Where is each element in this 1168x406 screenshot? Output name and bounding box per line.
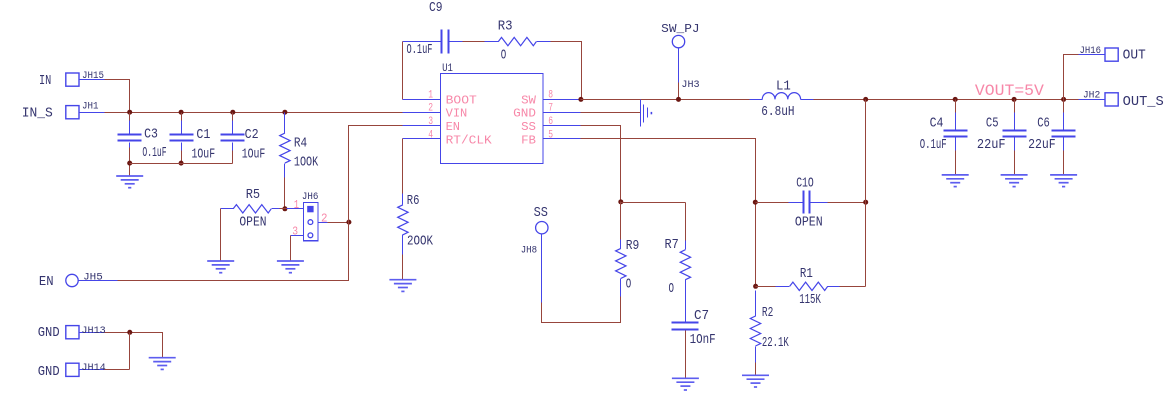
svg-text:C6: C6 xyxy=(1037,117,1050,132)
pin 2 stub xyxy=(403,112,441,114)
wire xyxy=(105,112,403,114)
wire xyxy=(581,139,756,287)
svg-text:6.8uH: 6.8uH xyxy=(761,105,794,120)
svg-text:GND: GND xyxy=(38,365,60,380)
wire xyxy=(840,286,866,288)
wire xyxy=(280,208,287,210)
svg-text:SS: SS xyxy=(521,120,536,134)
svg-text:L1: L1 xyxy=(776,79,791,94)
wire xyxy=(290,236,292,261)
svg-text:IN_S: IN_S xyxy=(22,106,53,121)
ground xyxy=(116,175,143,177)
node xyxy=(753,284,758,289)
svg-text:2: 2 xyxy=(321,211,328,225)
svg-text:1: 1 xyxy=(428,90,433,102)
wire xyxy=(328,222,349,224)
wire xyxy=(551,42,582,100)
node xyxy=(618,199,623,204)
svg-text:FB: FB xyxy=(521,133,536,147)
pin 1 stub xyxy=(403,99,441,101)
wire xyxy=(129,148,131,177)
resistor R4 xyxy=(284,113,286,134)
svg-text:JH2: JH2 xyxy=(1083,90,1100,101)
svg-text:JH15: JH15 xyxy=(82,71,104,82)
svg-text:5: 5 xyxy=(548,129,553,141)
wire xyxy=(284,178,286,209)
wire xyxy=(118,126,403,281)
wire xyxy=(828,202,866,204)
ground xyxy=(389,279,416,281)
svg-text:22uF: 22uF xyxy=(1028,138,1056,153)
svg-text:GND: GND xyxy=(513,107,536,121)
svg-text:3: 3 xyxy=(428,116,433,128)
capacitor C9 xyxy=(403,41,442,43)
ground xyxy=(1001,174,1028,176)
svg-text:JH6: JH6 xyxy=(302,192,319,203)
wire xyxy=(955,151,957,175)
node xyxy=(179,161,184,166)
svg-text:RT/CLK: RT/CLK xyxy=(446,133,493,147)
ground xyxy=(207,260,234,262)
resistor R6 xyxy=(402,194,404,205)
ground xyxy=(942,174,969,176)
node xyxy=(578,97,583,102)
resistor R5 xyxy=(221,208,234,210)
svg-text:22.1K: 22.1K xyxy=(762,336,789,351)
svg-text:C1: C1 xyxy=(196,128,210,143)
wire xyxy=(542,297,621,323)
svg-text:JH8: JH8 xyxy=(521,246,537,257)
wire xyxy=(105,333,163,358)
svg-text:JH3: JH3 xyxy=(681,80,699,91)
capacitor C2 xyxy=(232,113,234,121)
capacitor C7 xyxy=(672,322,699,324)
svg-text:SW_PJ: SW_PJ xyxy=(661,23,699,36)
node xyxy=(753,200,758,205)
svg-text:OPEN: OPEN xyxy=(795,215,823,230)
svg-text:EN: EN xyxy=(446,120,460,134)
svg-text:C1O: C1O xyxy=(796,177,814,192)
wire xyxy=(232,151,234,164)
wire xyxy=(220,209,222,261)
svg-text:C2: C2 xyxy=(245,128,259,143)
wire xyxy=(581,112,641,114)
svg-text:GND: GND xyxy=(38,326,60,341)
svg-text:22uF: 22uF xyxy=(977,138,1006,153)
svg-text:C9: C9 xyxy=(429,1,443,16)
wire xyxy=(1063,151,1065,175)
node xyxy=(282,206,287,211)
wire xyxy=(463,41,485,43)
capacitor C6 xyxy=(1063,100,1065,113)
connector JH3 (SW_PJ) xyxy=(672,35,684,47)
wire xyxy=(1064,55,1079,100)
wire xyxy=(685,331,687,379)
svg-text:SW: SW xyxy=(521,94,537,108)
svg-text:1OnF: 1OnF xyxy=(690,333,716,348)
svg-text:115K: 115K xyxy=(799,293,821,308)
wire xyxy=(105,80,130,113)
svg-text:R9: R9 xyxy=(626,239,640,254)
resistor R2 xyxy=(755,291,757,317)
ground xyxy=(672,377,699,379)
wire xyxy=(621,202,686,204)
resistor R1 xyxy=(776,286,790,288)
op-amp U1 (regulator box) xyxy=(441,74,543,164)
connector JH1 (IN_S) xyxy=(66,106,79,119)
wire xyxy=(181,151,183,164)
wire xyxy=(755,363,757,376)
connector JH16 (OUT) xyxy=(1105,48,1118,61)
wire xyxy=(581,99,750,101)
svg-text:R2: R2 xyxy=(762,306,773,321)
wire xyxy=(865,100,867,287)
node xyxy=(127,330,132,335)
power ground xyxy=(640,100,642,127)
svg-text:O: O xyxy=(501,48,507,63)
svg-text:1OOK: 1OOK xyxy=(294,156,319,171)
svg-text:JH13: JH13 xyxy=(81,326,105,337)
svg-text:BOOT: BOOT xyxy=(446,94,477,108)
node (output rail) xyxy=(863,97,868,102)
svg-text:1: 1 xyxy=(294,198,299,212)
resistor R3 xyxy=(485,41,499,43)
svg-text:R1: R1 xyxy=(800,267,813,282)
svg-text:C3: C3 xyxy=(144,127,158,142)
svg-text:JH16: JH16 xyxy=(1080,46,1102,57)
svg-text:OUT_S: OUT_S xyxy=(1123,95,1164,110)
svg-text:JH14: JH14 xyxy=(81,363,105,374)
svg-text:SS: SS xyxy=(534,206,548,221)
svg-text:U1: U1 xyxy=(442,63,453,75)
capacitor C1 xyxy=(181,113,183,121)
capacitor C3 xyxy=(129,113,131,121)
svg-text:O: O xyxy=(626,278,632,293)
svg-text:1OuF: 1OuF xyxy=(192,147,216,162)
capacitor C10 xyxy=(789,202,804,204)
connector JH13 (GND) xyxy=(66,326,79,339)
ground xyxy=(1050,174,1077,176)
node xyxy=(676,97,681,102)
svg-text:VIN: VIN xyxy=(446,107,468,121)
svg-text:O.1uF: O.1uF xyxy=(920,138,947,153)
svg-text:OPEN: OPEN xyxy=(239,216,266,231)
svg-text:O.1uF: O.1uF xyxy=(407,43,433,58)
ground xyxy=(149,357,176,359)
capacitor C5 xyxy=(1014,100,1016,113)
wire xyxy=(678,83,680,100)
svg-text:C7: C7 xyxy=(694,309,709,324)
svg-text:R5: R5 xyxy=(246,188,260,203)
wire xyxy=(814,99,1079,101)
wire xyxy=(402,42,404,100)
ground xyxy=(277,260,304,262)
resistor R7 xyxy=(685,241,687,250)
svg-text:6: 6 xyxy=(548,116,553,128)
pin 3 stub xyxy=(403,125,441,127)
svg-text:C4: C4 xyxy=(930,117,944,132)
svg-text:O: O xyxy=(669,282,675,297)
wire xyxy=(756,202,789,204)
connector JH14 (GND) xyxy=(66,363,79,376)
ground xyxy=(742,374,769,376)
pin 4 stub xyxy=(403,138,441,140)
svg-text:C5: C5 xyxy=(986,117,999,132)
svg-text:O.1uF: O.1uF xyxy=(142,146,166,161)
wire xyxy=(685,203,687,241)
wire xyxy=(402,255,404,280)
wire xyxy=(105,369,130,371)
svg-text:4: 4 xyxy=(428,129,433,141)
pin 5 stub xyxy=(544,138,581,140)
header JH6 xyxy=(304,203,318,241)
resistor R9 xyxy=(620,240,622,249)
pin 7 stub xyxy=(544,112,581,114)
svg-text:IN: IN xyxy=(39,74,51,89)
svg-text:JH5: JH5 xyxy=(83,273,103,284)
capacitor C4 xyxy=(955,100,957,113)
node (rail junctions) xyxy=(127,110,132,115)
pin 6 stub xyxy=(544,125,581,127)
node xyxy=(127,161,132,166)
svg-text:VOUT=5V: VOUT=5V xyxy=(975,82,1044,100)
svg-text:7: 7 xyxy=(548,103,553,115)
node xyxy=(346,220,351,225)
svg-text:2: 2 xyxy=(428,103,433,115)
connector JH2 (OUT_S) xyxy=(1105,93,1118,106)
inductor L1 xyxy=(750,99,763,101)
connector JH8 (SS) xyxy=(536,222,548,234)
node xyxy=(863,200,868,205)
svg-text:JH1: JH1 xyxy=(82,102,99,113)
svg-text:R7: R7 xyxy=(665,238,679,253)
svg-text:2OOK: 2OOK xyxy=(407,234,434,249)
connector JH15 (IN) xyxy=(66,73,79,86)
wire xyxy=(620,202,622,240)
svg-text:8: 8 xyxy=(548,90,553,102)
svg-text:R3: R3 xyxy=(498,20,513,35)
connector JH5 (EN) xyxy=(66,274,78,286)
wire xyxy=(402,139,404,194)
pin 8 stub xyxy=(544,99,581,101)
svg-text:OUT: OUT xyxy=(1123,49,1146,64)
svg-text:EN: EN xyxy=(39,275,54,290)
svg-text:1OuF: 1OuF xyxy=(242,147,266,162)
svg-text:3: 3 xyxy=(292,225,298,239)
svg-text:R6: R6 xyxy=(407,194,420,209)
wire xyxy=(1014,151,1016,175)
wire xyxy=(581,126,621,202)
svg-text:R4: R4 xyxy=(294,137,307,152)
wire xyxy=(756,286,776,288)
